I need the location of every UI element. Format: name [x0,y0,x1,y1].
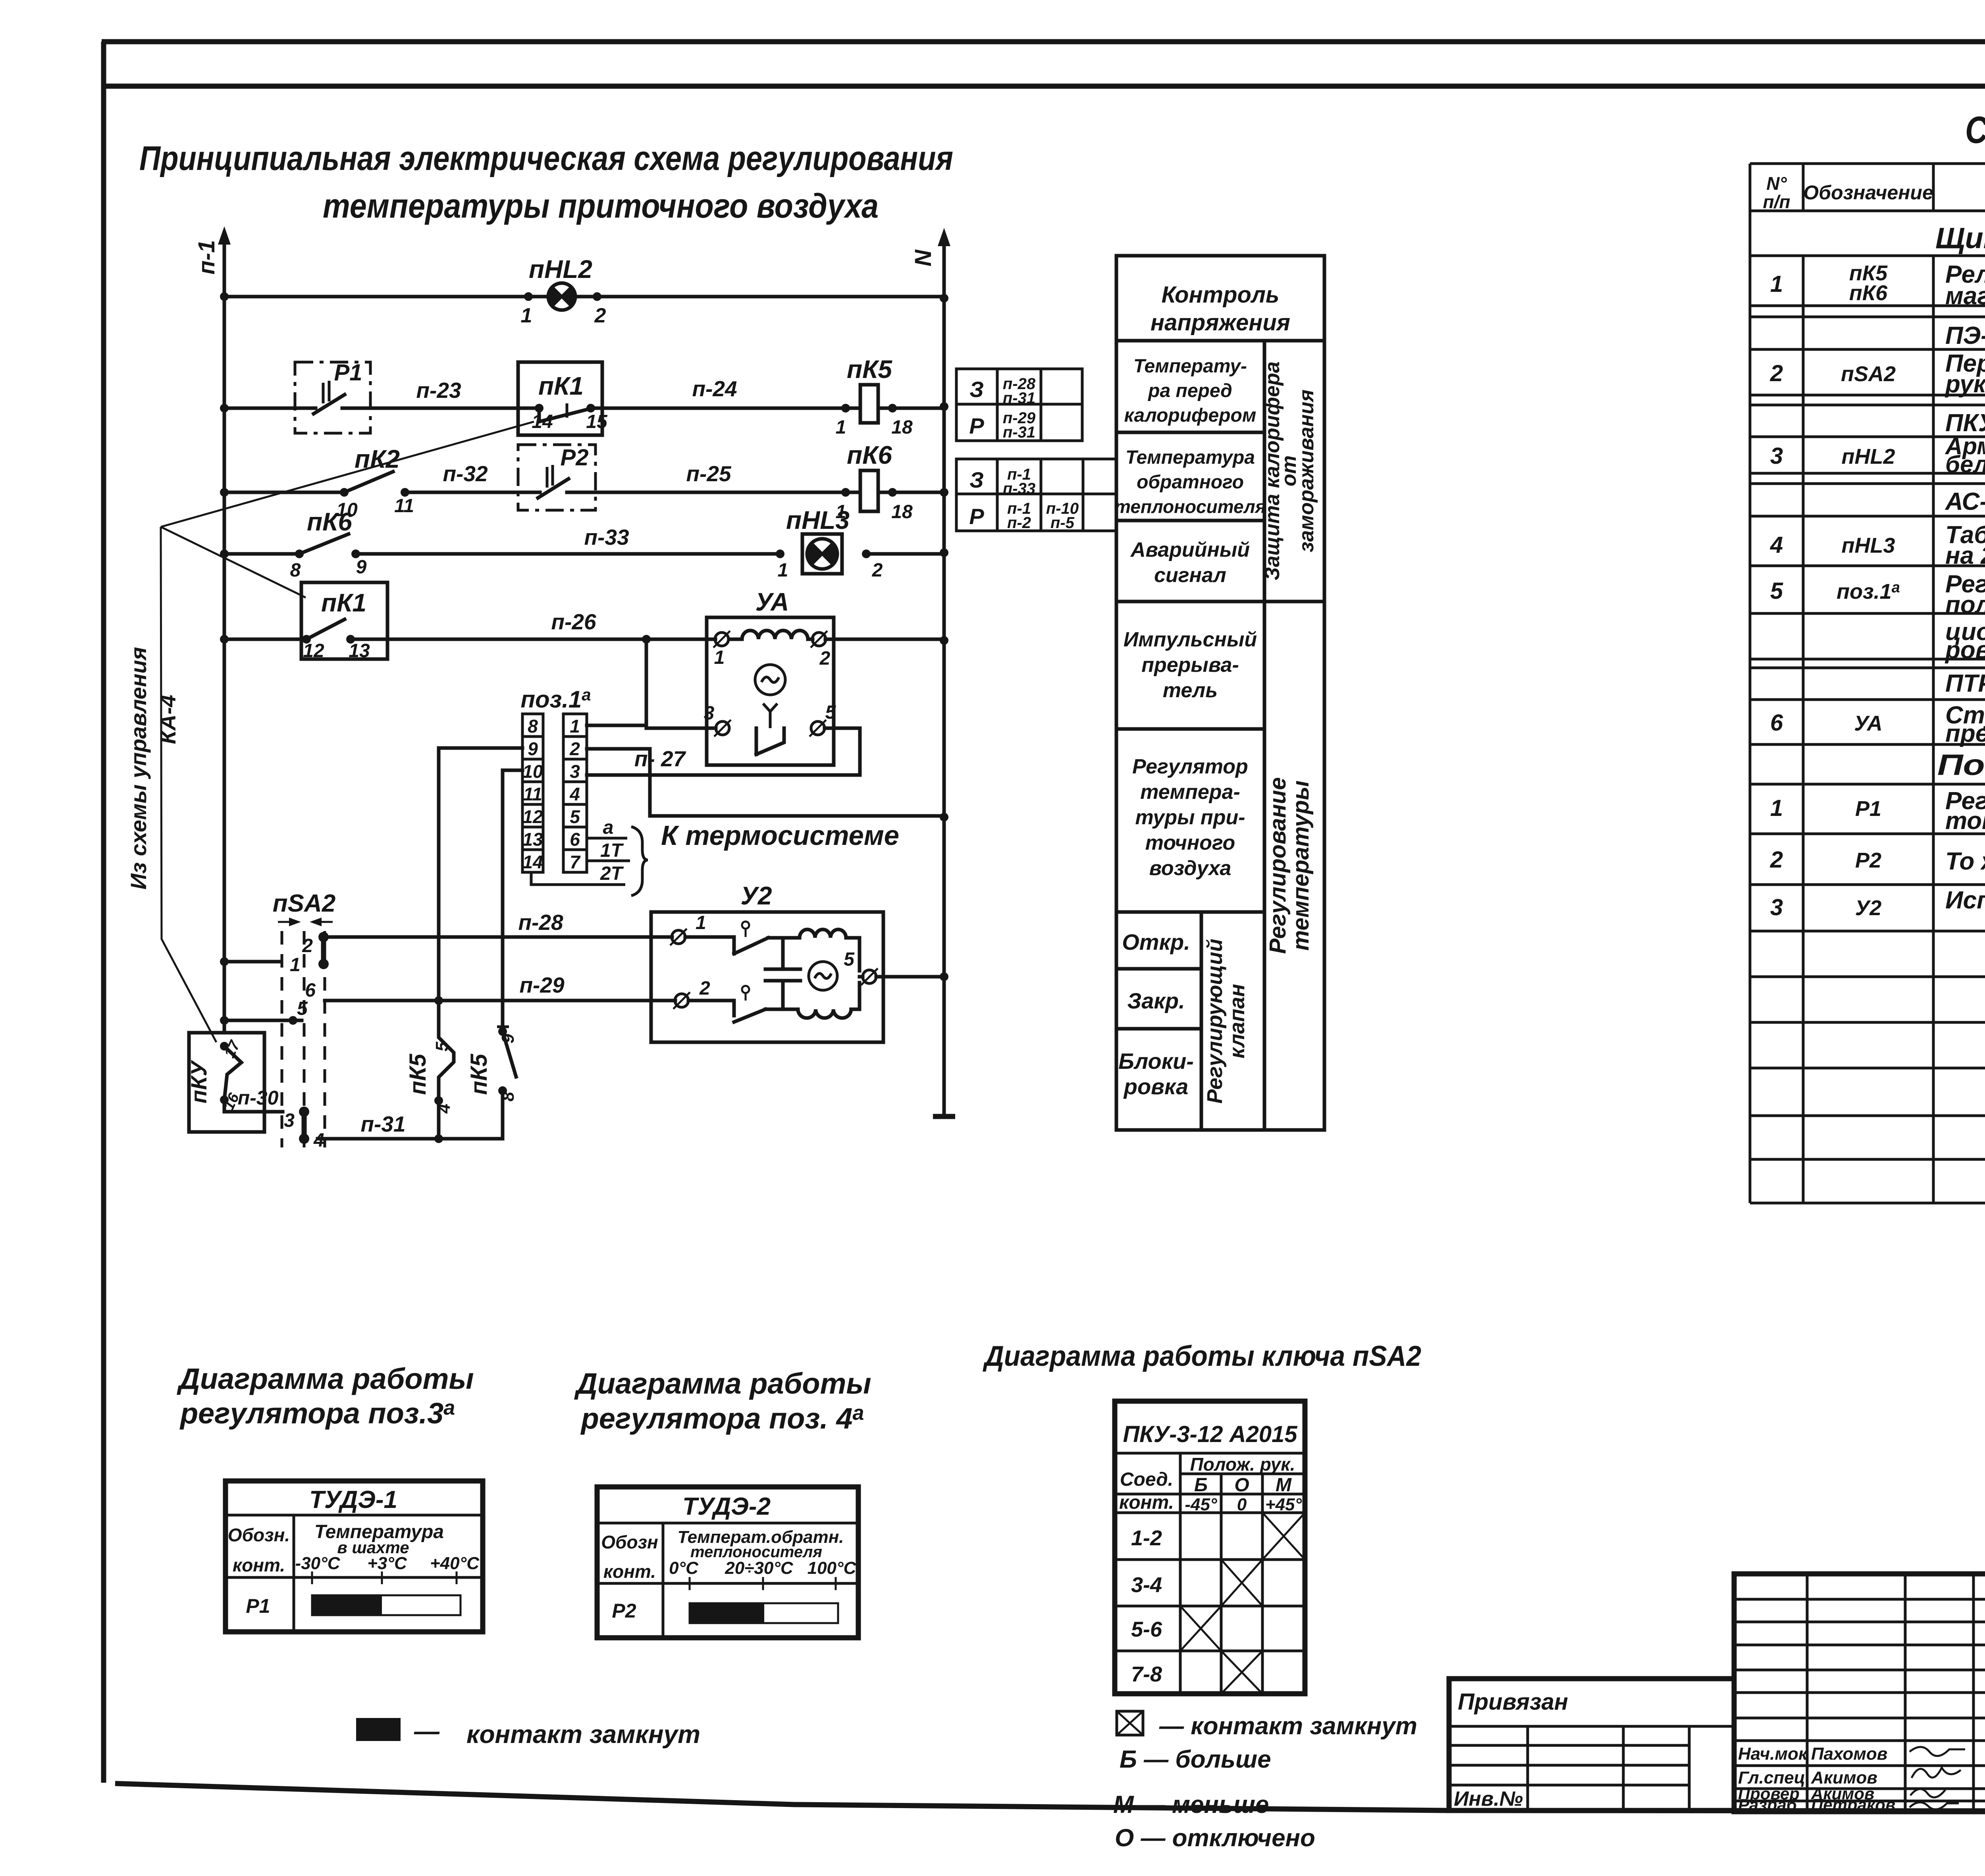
sheet frame inner top line [102,84,1985,89]
spec row ПТР-3-04 [1945,670,1985,697]
label пК1 lower [321,588,366,617]
svg-text:п-32: п-32 [443,461,488,486]
svg-text:белой линзой на ~220в: белой линзой на ~220в [1945,451,1985,478]
svg-text:п-23: п-23 [416,378,461,403]
svg-text:Температура: Температура [1125,447,1255,468]
svg-text:1: 1 [521,304,532,327]
upper table З row [969,375,1036,407]
key row 7-8 [1131,1651,1262,1694]
svg-text:Принципиальная электрическая: Принципиальная электрическая схема регул… [139,139,953,177]
У2 pin 5 terminal [844,949,878,985]
lower table З row [969,466,1035,497]
svg-text:13: 13 [522,829,543,850]
spec row 4 пHL3 [1770,521,1985,569]
key table Соед конт [1119,1469,1174,1513]
junction row5/left rail [220,635,229,644]
svg-text:5: 5 [1770,578,1783,604]
note Из схемы управления [126,647,151,889]
spec row ПЭ-21-5 [1945,322,1985,349]
svg-text:Привязан: Привязан [1458,1689,1568,1715]
svg-text:О — отключено: О — отключено [1115,1824,1315,1852]
svg-text:Аварийный: Аварийный [1130,538,1250,561]
svg-text:13: 13 [349,640,370,661]
svg-text:3-4: 3-4 [1131,1573,1162,1597]
svg-text:11: 11 [523,784,542,804]
wire label п-32 [443,461,488,486]
svg-text:пHL3: пHL3 [1842,534,1895,557]
table ТУДЭ-1 frame [225,1481,483,1632]
svg-text:пSA2: пSA2 [1841,362,1896,386]
svg-text:Диаграмма работы ключа пSA2: Диаграмма работы ключа пSA2 [982,1340,1421,1372]
key row 3-4 [1131,1560,1262,1606]
wire пКУ to п-30 [224,1100,264,1112]
label пК1 [538,372,584,400]
contact пК5 make (chain 5-4) [434,1001,454,1139]
svg-text:1: 1 [570,716,580,737]
wire label п-27 [634,746,686,771]
svg-text:Р: Р [969,413,984,438]
svg-text:—: — [414,1717,440,1745]
svg-text:Диаграмма работы: Диаграмма работы [574,1367,871,1400]
svg-text:3: 3 [570,761,580,782]
svg-text:1: 1 [714,647,725,668]
key legend Б больше [1120,1746,1271,1773]
УА pin 5 terminal [809,702,836,737]
пSA2 dashed shaft lines [282,931,325,1147]
label пК2 [355,445,400,473]
spec row 1 пК5 пК6 [1770,261,1985,310]
relay contact пК1 box (row5) [301,582,387,659]
junction row1/N rail [940,294,948,303]
pin label 11 [394,496,414,517]
УА AC source symbol [755,665,785,695]
svg-text:2: 2 [699,978,710,999]
svg-text:тометрический ТУДЭ-1: тометрический ТУДЭ-1 [1945,807,1985,835]
pin label 16 [220,1090,243,1113]
svg-text:9: 9 [498,1033,518,1043]
svg-text:2: 2 [1770,361,1783,386]
wire pin1 feed from left rail [220,954,301,976]
svg-text:обратного: обратного [1137,472,1244,493]
label пК5 rotated (make) [405,1054,431,1095]
svg-text:Откр.: Откр. [1122,929,1190,954]
wire label п-24 [692,376,737,401]
svg-text:12: 12 [303,640,324,661]
svg-text:пHL2: пHL2 [529,255,592,283]
annotation table З/Р lower [956,459,1116,531]
svg-text:Р2: Р2 [1855,848,1881,872]
impulse interrupter УА box [707,617,834,765]
svg-text:пК5: пК5 [847,355,892,384]
svg-text:ПТР-3-04: ПТР-3-04 [1945,670,1985,697]
svg-text:рования +5÷+35°С: рования +5÷+35°С [1945,636,1985,664]
svg-text:пК5: пК5 [466,1054,492,1095]
ПКУ key table frame [1115,1401,1305,1694]
relay пКУ box [189,1033,264,1132]
svg-text:п-2: п-2 [1007,514,1031,532]
pin label 14 [532,411,553,432]
svg-text:Полож. рук.: Полож. рук. [1190,1454,1295,1475]
label Р1 [334,360,362,386]
brace to thermosystem [631,827,648,896]
pin label 4 rotated [434,1104,454,1114]
svg-text:3: 3 [1770,443,1783,469]
svg-text:+40°С: +40°С [430,1554,480,1573]
svg-text:5: 5 [844,949,855,970]
svg-text:1: 1 [778,560,788,581]
strip Регулирование температуры [1265,777,1314,954]
note К термосистеме [661,820,899,851]
wire row 4 segments [224,552,944,556]
УА impulse contact [756,704,784,754]
svg-text:1-2: 1-2 [1131,1526,1162,1550]
пSA2 contact 2 [302,932,329,969]
mechanical link line to пК1 row5 box [161,527,306,598]
strip Защита калорифера от замораживания [1261,361,1318,580]
svg-text:4: 4 [434,1104,454,1114]
svg-text:— контакт замкнут: — контакт замкнут [1159,1712,1417,1740]
key legend О отключено [1115,1824,1315,1852]
svg-text:Контроль: Контроль [1162,282,1280,308]
pin label 5 rotated [432,1041,452,1051]
svg-text:напряжения: напряжения [1151,310,1290,335]
specification table grid [1750,86,1985,1203]
svg-text:М: М [1276,1475,1292,1496]
svg-text:точного: точного [1145,831,1235,854]
svg-text:Обозначение: Обозначение [1803,181,1933,204]
svg-text:К термосистеме: К термосистеме [661,820,899,851]
svg-text:20÷30°С: 20÷30°С [725,1558,794,1578]
junction row3/left rail [220,488,229,497]
wire п-28 [324,910,672,937]
svg-text:замораживания: замораживания [1295,389,1318,552]
function box Закр. [1127,988,1185,1013]
function box Импульсный прерыватель [1124,628,1257,702]
svg-text:2: 2 [872,560,883,581]
spec row 3 пHL2 [1770,433,1985,478]
svg-text:Температу-: Температу- [1133,356,1247,377]
function box Аварийный сигнал [1130,538,1250,587]
ТУДЭ-2 row Р2 [612,1600,636,1622]
svg-text:п/п: п/п [1763,191,1790,212]
svg-text:Р: Р [969,504,984,529]
пКУ contact 17-16 [220,1042,241,1104]
svg-text:1: 1 [1770,271,1783,297]
svg-text:Исполнительный: Исполнительный [1945,887,1985,914]
svg-text:То же, но ТУДЭ-4: То же, но ТУДЭ-4 [1945,848,1985,875]
pin label 13 [349,640,370,661]
pin 1 of пHL3 [776,549,788,581]
label пHL2 [529,255,592,283]
junction п-26 branch to УА pin3 [642,635,651,644]
spec row 2 Р2 [1770,840,1985,884]
link line from scheme КА-4 down to пКУ [161,527,216,1042]
thermostat Р2 box [518,445,595,510]
svg-text:п-31: п-31 [360,1112,405,1136]
coil пК5 pin 1 [836,404,850,438]
actuator У2 box [651,912,883,1042]
pin label 15 [586,411,608,432]
title block signatures scribbles [1910,1747,1965,1809]
pin label 9 rotated [498,1033,518,1043]
svg-text:14: 14 [532,411,553,432]
ТУДЭ-2 contact band [690,1603,838,1623]
У2 pin 1 terminal [670,912,706,945]
ТУДЭ-1 contact band [312,1595,461,1615]
title block frame [1734,1574,1985,1812]
svg-text:поз.1а: поз.1а [520,685,591,713]
key legend М меньше [1113,1791,1269,1818]
svg-text:+45°: +45° [1265,1495,1302,1514]
regulator terminal block поз.1а label [520,685,591,713]
sheet frame left border [101,42,106,1783]
svg-text:2: 2 [302,935,313,956]
Привязан label [1458,1689,1568,1715]
contact пК6 8-9 [295,534,360,558]
svg-text:1: 1 [1770,795,1783,821]
key legend contact closed [1117,1711,1417,1740]
label пК5 coil [847,355,892,384]
relay contact пК1 box (row2) [518,362,602,435]
svg-text:N°: N° [1766,173,1787,194]
sheet frame bottom border [115,1783,1985,1811]
svg-text:п-1: п-1 [194,240,220,275]
svg-text:п-29: п-29 [519,973,565,997]
wire pin1 of поз.1а to УА branch [587,724,646,727]
specification title [1965,109,1985,151]
function box Температура перед калорифером [1124,356,1257,426]
svg-text:1Т: 1Т [600,840,624,861]
net label п-1 [194,240,220,275]
svg-text:пК5: пК5 [405,1054,431,1095]
svg-text:магнитное на ~220в: магнитное на ~220в [1945,282,1985,310]
spec row 3 У2 [1770,887,1985,934]
svg-text:полупроводниковый трехпози-: полупроводниковый трехпози- [1945,591,1985,619]
wire label п-33 [584,525,629,549]
svg-text:Р1: Р1 [246,1595,270,1617]
node п-1 left supply rail [218,226,231,1033]
wire pin14 node 2Т [531,863,625,885]
svg-text:0: 0 [1237,1495,1247,1514]
svg-text:п-30: п-30 [238,1087,279,1109]
svg-text:4: 4 [569,784,580,804]
svg-text:9: 9 [356,557,367,578]
wire pin9 of поз.1а down to пК5 contact [439,748,522,1001]
svg-text:4: 4 [1770,532,1783,558]
пSA2 contact 3-4 [284,1107,324,1151]
поз.1а terminal numbers right 1-7 [569,716,581,872]
ТУДЭ-1 scale header [295,1521,480,1584]
svg-text:8: 8 [498,1091,518,1101]
function box Блокировка [1118,1049,1194,1099]
strip Регулирующий клапан [1203,939,1249,1104]
svg-text:КА-4: КА-4 [155,695,180,744]
wire pin5 feed from left rail [220,998,308,1025]
junction row3/N rail [940,488,948,497]
upper table Р row [969,409,1036,441]
svg-text:пК2: пК2 [355,445,400,473]
svg-text:Импульсный: Импульсный [1124,628,1257,651]
junction row5/N rail [940,636,948,645]
junction row1/left rail [220,292,229,301]
svg-text:N: N [910,249,936,266]
svg-text:18: 18 [891,501,913,523]
svg-text:пК1: пК1 [321,588,366,617]
Р2 thermal contact [538,465,569,498]
svg-text:Б: Б [1194,1475,1208,1496]
svg-text:1: 1 [836,417,846,438]
svg-text:клапан: клапан [1225,984,1249,1059]
svg-text:8: 8 [290,560,301,581]
svg-text:рукояткой револьверного типа: рукояткой револьверного типа [1945,370,1985,398]
svg-text:п-31: п-31 [1003,424,1035,441]
Привязан box [1449,1679,1734,1810]
svg-text:пК6: пК6 [307,507,352,536]
svg-text:контакт замкнут: контакт замкнут [466,1720,700,1749]
svg-text:7: 7 [570,852,581,872]
svg-text:З: З [969,377,984,402]
label Р2 [561,445,589,470]
svg-text:14: 14 [522,852,543,872]
svg-text:пК6: пК6 [847,441,892,469]
svg-text:калорифером: калорифером [1124,405,1257,426]
svg-text:регулятора поз. 4а: регулятора поз. 4а [580,1402,864,1435]
поз.1а right terminal column [563,714,587,872]
пSA2 handle arrows [278,918,333,926]
ТУДЭ-1 Обозн конт [228,1525,290,1575]
svg-text:6: 6 [1770,710,1783,736]
spec row АС-220 [1945,488,1985,515]
wire п-27 return from УА pin5 to regulator [587,728,860,775]
lamp пHL2 [548,283,575,310]
coil пК6 pin 1 [836,488,850,523]
ТУДЭ-1 row Р1 [246,1595,270,1617]
function box Контроль напряжения [1151,282,1290,335]
annotation table З/Р upper [956,369,1082,441]
svg-text:температуры приточного возду: температуры приточного воздуха [323,187,879,225]
svg-text:конт.: конт. [1119,1492,1174,1513]
wire pin10 of поз.1а down to пК5 contact [503,770,522,1032]
wire label п-23 [416,378,461,403]
svg-text:Соед.: Соед. [1120,1469,1173,1490]
svg-text:УА: УА [755,588,789,616]
pin 2 of пHL3 [862,549,883,581]
svg-text:п-25: п-25 [686,461,732,486]
svg-text:Петраков: Петраков [1811,1795,1895,1814]
drawing title line 2 [323,187,879,225]
svg-text:2: 2 [569,738,580,759]
svg-text:Инв.№: Инв.№ [1454,1787,1523,1810]
svg-text:3: 3 [704,703,715,724]
relay coil пК6 [860,470,878,511]
wire label п-25 [686,461,732,486]
svg-text:пК6: пК6 [1849,281,1888,305]
svg-text:Блоки-: Блоки- [1118,1049,1194,1074]
svg-text:0°С: 0°С [669,1558,699,1578]
svg-text:Регулирование: Регулирование [1265,777,1291,954]
svg-text:п-33: п-33 [584,525,629,549]
УА pin 1 terminal [713,631,730,668]
пК1 contact 14-15 [535,403,595,422]
svg-text:З: З [969,467,984,492]
svg-text:а: а [603,817,614,838]
wire row 3 segments [224,491,944,494]
svg-text:1: 1 [290,954,301,976]
lower table Р row [969,500,1079,532]
svg-text:п-33: п-33 [1003,480,1035,497]
junction row2/left rail [220,404,229,413]
svg-text:5: 5 [297,998,308,1019]
svg-text:3: 3 [1770,895,1783,920]
junction п-29 / пК5 chain [434,996,443,1005]
svg-text:8: 8 [528,716,538,737]
svg-text:6: 6 [570,829,580,850]
svg-text:2: 2 [594,304,606,327]
wire row 1 (lamp circuit) [224,295,944,299]
svg-text:5-6: 5-6 [1131,1618,1162,1641]
function box Регулятор температуры приточного воздуха [1132,755,1248,880]
svg-text:пHL2: пHL2 [1842,445,1895,469]
svg-text:пКУ: пКУ [186,1060,211,1104]
svg-text:пHL3: пHL3 [786,506,850,534]
spec header Обозначение [1803,181,1933,204]
wire п-30 [238,1087,283,1112]
У2 lower limit contact [688,986,765,1022]
wire УА pin3 feed [646,639,716,728]
svg-text:2Т: 2Т [600,863,624,884]
svg-text:тель: тель [1163,679,1218,702]
key row 5-6 [1131,1606,1221,1651]
ground / line end bar on N rail [933,1114,955,1119]
spec row continuation диапазон [1945,618,1985,664]
label пК6 coil [847,441,892,469]
svg-text:прерыва-: прерыва- [1141,654,1239,677]
svg-text:сигнал: сигнал [1154,564,1226,587]
svg-text:Разраб: Разраб [1738,1795,1797,1814]
svg-text:прерыватель ~220в СИП-01: прерыватель ~220в СИП-01 [1945,720,1985,747]
svg-text:Спецификация: Спецификация [1965,109,1985,151]
lamp пHL3 [802,534,842,574]
coil пК5 pin 18 [888,404,913,438]
net label N [910,249,936,266]
title block signature rows [1738,1744,1895,1814]
svg-text:Обозн.: Обозн. [228,1525,290,1545]
Инв N label [1454,1787,1523,1810]
contact пК2 10-11 [340,472,409,497]
svg-text:3: 3 [284,1110,295,1131]
legend closed contact (left) [356,1717,700,1749]
ТУДЭ-2 Обозн конт [601,1532,658,1582]
pin label 9 [356,557,367,578]
svg-text:конт.: конт. [233,1555,285,1575]
junction row4/left rail [220,549,229,558]
function box Откр. [1122,929,1190,954]
svg-text:Б — больше: Б — больше [1120,1746,1271,1773]
svg-text:2: 2 [1770,847,1783,873]
svg-text:п-31: п-31 [1003,389,1035,407]
spec row 2 пSA2 [1770,350,1985,398]
У2 capacitor [765,938,800,1009]
svg-text:По месту: По месту [1937,748,1985,781]
svg-text:температуры: температуры [1288,781,1314,951]
pin label 12 [303,640,324,661]
pin label 17 [221,1037,244,1060]
svg-text:теплоносителя: теплоносителя [1114,496,1266,517]
svg-text:пК1: пК1 [538,372,584,400]
svg-text:воздуха: воздуха [1149,857,1231,880]
pin label 10 [336,499,358,521]
junction row2/N rail [940,402,948,411]
